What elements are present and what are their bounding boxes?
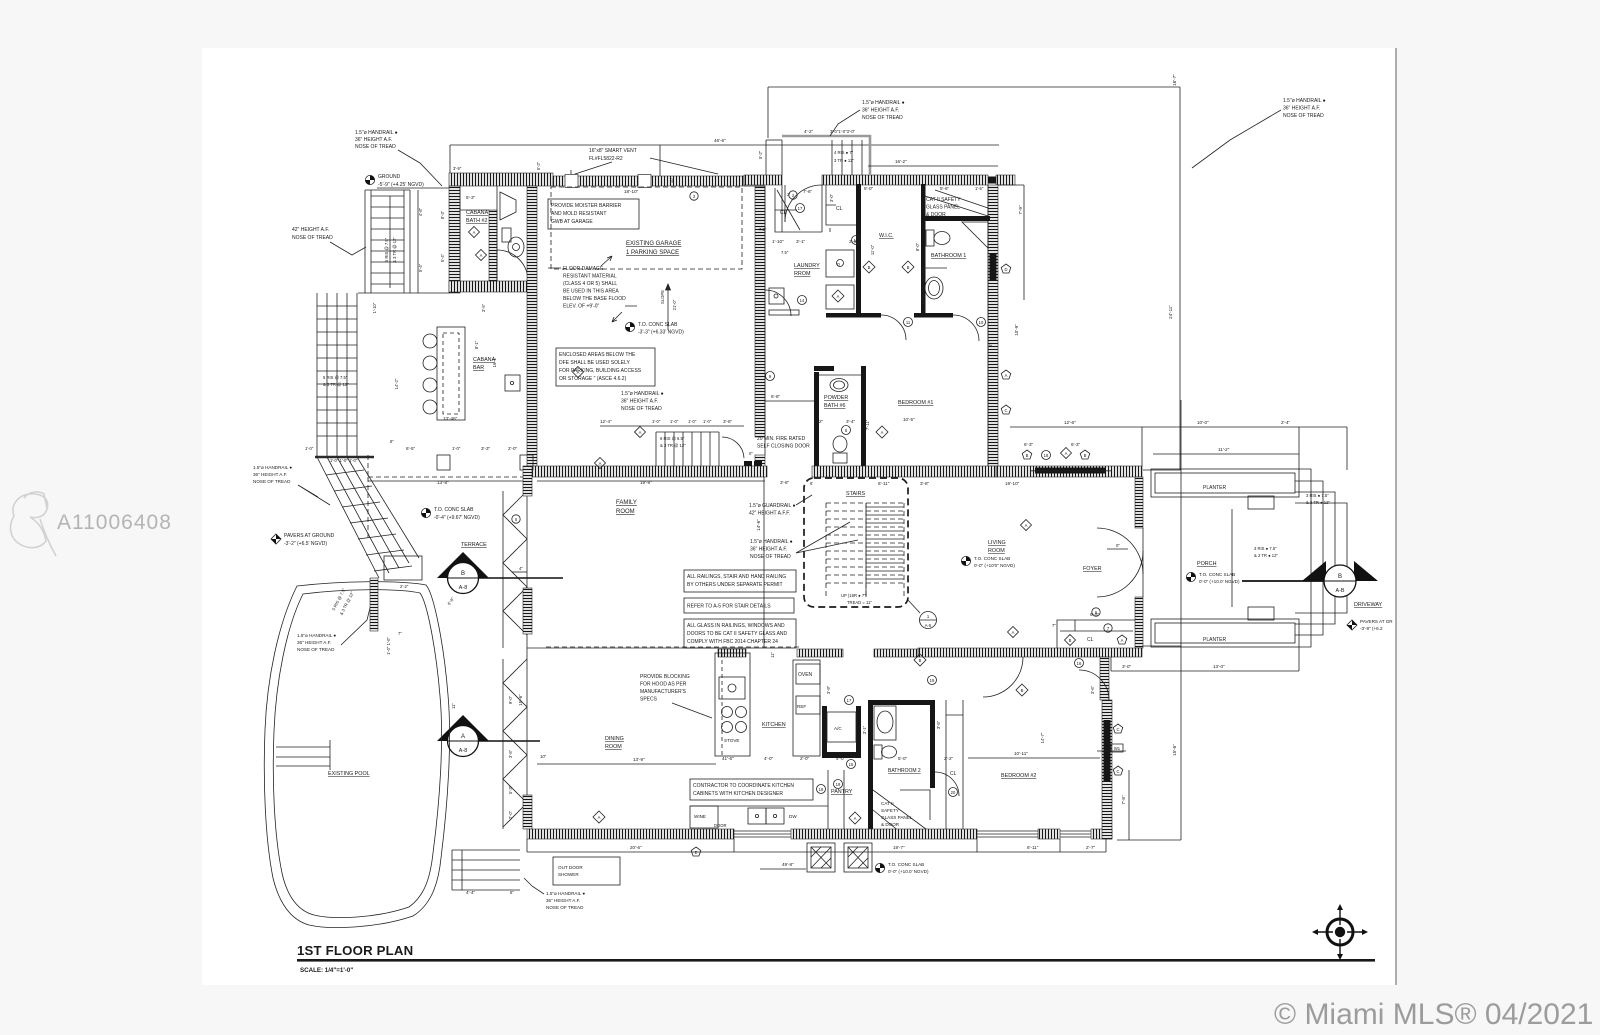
moisture barrier note box xyxy=(548,199,639,229)
svg-text:CL: CL xyxy=(950,771,957,777)
T.O. conc slab garage xyxy=(625,322,634,331)
svg-text:DOORS TO BE CAT II SAFETY GLAS: DOORS TO BE CAT II SAFETY GLASS AND xyxy=(687,631,788,637)
foyer bottom wall xyxy=(918,648,1142,657)
svg-text:2'-7": 2'-7" xyxy=(1086,845,1096,850)
svg-text:FAMILY: FAMILY xyxy=(616,500,637,506)
svg-text:1'-0": 1'-0" xyxy=(703,419,712,424)
svg-text:3'-5": 3'-5" xyxy=(936,720,941,729)
deck edge line left of cabana xyxy=(358,292,449,294)
svg-text:7'-8": 7'-8" xyxy=(1121,795,1126,805)
svg-text:0": 0" xyxy=(749,451,753,456)
svg-text:DW: DW xyxy=(789,814,797,819)
svg-text:5 RIS @ 7.5": 5 RIS @ 7.5" xyxy=(323,375,348,380)
svg-text:3'-4": 3'-4" xyxy=(846,419,856,424)
svg-text:36" HEIGHT A.F.: 36" HEIGHT A.F. xyxy=(862,108,899,114)
svg-text:ELEV. OF +9'-0": ELEV. OF +9'-0" xyxy=(563,304,600,310)
svg-text:D: D xyxy=(837,262,840,267)
svg-text:REFER TO A-5 FOR STAIR DETAILS: REFER TO A-5 FOR STAIR DETAILS xyxy=(687,604,771,610)
svg-text:C: C xyxy=(1004,408,1007,413)
svg-text:16'-2": 16'-2" xyxy=(895,159,907,164)
garage interior stair (6 RIS) xyxy=(656,432,719,466)
svg-text:BE USED IN THIS AREA: BE USED IN THIS AREA xyxy=(563,289,619,295)
svg-text:11": 11" xyxy=(770,652,775,658)
svg-text:T.O. CONC SLAB: T.O. CONC SLAB xyxy=(1199,572,1235,577)
stairs dashed enclosure xyxy=(804,478,908,607)
svg-text:14'-7": 14'-7" xyxy=(1040,732,1045,743)
svg-text:EXISTING GARAGE: EXISTING GARAGE xyxy=(626,241,681,247)
svg-text:3 TR ● 12": 3 TR ● 12" xyxy=(834,158,855,163)
svg-text:2'-4": 2'-4" xyxy=(1281,420,1291,425)
svg-text:36" HEIGHT A.F.: 36" HEIGHT A.F. xyxy=(297,640,331,645)
svg-text:C: C xyxy=(1116,727,1119,732)
svg-text:B: B xyxy=(919,658,922,663)
svg-text:8'-0": 8'-0" xyxy=(915,242,920,251)
svg-text:REF: REF xyxy=(797,704,806,709)
svg-text:46'-6": 46'-6" xyxy=(714,138,726,143)
svg-text:SPECS: SPECS xyxy=(640,697,658,703)
bar sink box xyxy=(505,375,520,391)
svg-text:3'-9": 3'-9" xyxy=(826,685,831,694)
svg-text:-5'-9" (+4.25' NGVD): -5'-9" (+4.25' NGVD) xyxy=(378,182,424,188)
svg-text:1.5"ø HANDRAIL ●: 1.5"ø HANDRAIL ● xyxy=(546,891,585,896)
svg-text:B: B xyxy=(1084,453,1087,458)
svg-text:12: 12 xyxy=(854,238,859,243)
right wing top wall xyxy=(744,175,782,185)
svg-text:BELOW THE BASE FLOOD: BELOW THE BASE FLOOD xyxy=(563,296,626,302)
svg-text:PLANTER: PLANTER xyxy=(1203,637,1226,643)
svg-text:7": 7" xyxy=(1052,623,1056,628)
svg-text:6'-3": 6'-3" xyxy=(1024,442,1034,447)
stairs treads xyxy=(826,503,904,597)
east wall bed2 xyxy=(1102,700,1112,839)
svg-text:FL#FL5822-R2: FL#FL5822-R2 xyxy=(589,156,623,162)
svg-text:ALL GLASS IN RAILINGS, WINDOWS: ALL GLASS IN RAILINGS, WINDOWS AND xyxy=(687,623,785,629)
svg-text:7.5": 7.5" xyxy=(781,250,789,255)
north window sills of kitchen zone xyxy=(718,649,746,657)
svg-text:7.5": 7.5" xyxy=(759,227,767,232)
svg-text:11'-2": 11'-2" xyxy=(1218,447,1230,452)
svg-text:2'-0": 2'-0" xyxy=(508,810,513,819)
svg-text:A: A xyxy=(461,734,465,740)
svg-text:10": 10" xyxy=(540,754,547,759)
svg-text:5'-3": 5'-3" xyxy=(466,195,476,200)
svg-text:6'-5": 6'-5" xyxy=(406,446,416,451)
svg-text:5'-6": 5'-6" xyxy=(940,186,950,191)
deck columns xyxy=(437,455,450,470)
svg-text:& 3 TR @ 12": & 3 TR @ 12" xyxy=(392,237,397,263)
svg-text:15'-6": 15'-6" xyxy=(1172,744,1177,756)
svg-text:STAIRS: STAIRS xyxy=(846,491,865,497)
slab marker bottom xyxy=(875,863,884,872)
base cabinets south xyxy=(690,770,844,829)
svg-text:17: 17 xyxy=(798,206,803,211)
svg-text:FOR HOOD AS PER: FOR HOOD AS PER xyxy=(640,682,687,688)
svg-text:FLOOR DAMAGE: FLOOR DAMAGE xyxy=(563,266,604,272)
dining west glazing zigzag xyxy=(503,648,527,829)
svg-text:5'-4": 5'-4" xyxy=(440,253,445,262)
svg-text:A: A xyxy=(1012,630,1015,635)
svg-text:12'-6": 12'-6" xyxy=(1064,420,1076,425)
notes boxes right of family room xyxy=(684,570,796,592)
svg-text:1ST FLOOR PLAN: 1ST FLOOR PLAN xyxy=(297,943,413,958)
svg-text:16"x8" SMART VENT: 16"x8" SMART VENT xyxy=(589,148,637,154)
smart vents in wall xyxy=(565,175,578,188)
svg-text:5'-3": 5'-3" xyxy=(508,785,513,794)
svg-text:DOOR: DOOR xyxy=(714,823,727,828)
svg-text:BATH #2: BATH #2 xyxy=(466,218,487,224)
svg-text:1'-0": 1'-0" xyxy=(670,419,679,424)
cabana bar table xyxy=(423,327,465,420)
svg-text:1'-5": 1'-5" xyxy=(975,186,984,191)
svg-text:& 2 TR ● 12": & 2 TR ● 12" xyxy=(1254,553,1278,558)
svg-text:LIVING: LIVING xyxy=(988,540,1006,546)
svg-text:7'-6": 7'-6" xyxy=(803,189,813,194)
equipment pads xyxy=(807,843,872,872)
window keynotes east xyxy=(1113,724,1123,733)
42" height note xyxy=(292,227,366,255)
svg-text:2'-2": 2'-2" xyxy=(944,756,954,761)
svg-text:CAT II SAFETY: CAT II SAFETY xyxy=(926,197,961,203)
powder bath toilet xyxy=(833,436,847,463)
svg-text:7": 7" xyxy=(398,631,402,636)
svg-text:A: A xyxy=(1025,523,1028,528)
svg-text:A: A xyxy=(837,294,840,299)
svg-text:NOSE OF TREAD: NOSE OF TREAD xyxy=(253,479,291,484)
svg-text:KITCHEN: KITCHEN xyxy=(762,722,786,728)
svg-text:SLOPE: SLOPE xyxy=(660,290,665,304)
svg-text:19: 19 xyxy=(930,678,935,683)
section marker B right xyxy=(1242,561,1378,597)
kitchen island xyxy=(715,653,750,756)
svg-text:A: A xyxy=(577,370,580,375)
powder bath walls xyxy=(814,372,819,470)
svg-text:DRIVEWAY: DRIVEWAY xyxy=(1354,602,1383,608)
dashed soffit line xyxy=(546,646,800,648)
svg-text:© Miami MLS® 04/2021: © Miami MLS® 04/2021 xyxy=(1274,998,1593,1031)
cabana bath left wall xyxy=(449,186,460,293)
bottom dim line xyxy=(527,851,1106,853)
south windows xyxy=(734,831,1091,837)
svg-text:5 RIS @ 7.5": 5 RIS @ 7.5" xyxy=(384,237,389,262)
garage parking dashed area xyxy=(551,187,742,269)
svg-text:B: B xyxy=(1021,688,1024,693)
svg-text:A/C: A/C xyxy=(834,726,842,731)
svg-text:3'-6": 3'-6" xyxy=(1090,685,1095,694)
svg-text:4'-8": 4'-8" xyxy=(418,207,423,216)
svg-text:B: B xyxy=(868,265,871,270)
svg-text:DINING: DINING xyxy=(605,736,624,742)
svg-text:PANTRY: PANTRY xyxy=(831,789,853,795)
svg-text:E: E xyxy=(695,850,698,855)
svg-text:4'-2": 4'-2" xyxy=(804,129,814,134)
svg-text:0'-0" (+10.0' NGVD): 0'-0" (+10.0' NGVD) xyxy=(1199,579,1240,584)
garage/family bottom wall xyxy=(527,466,767,477)
title underline xyxy=(297,959,1375,962)
svg-text:3'-5": 3'-5" xyxy=(508,749,513,758)
svg-text:NOSE OF TREAD: NOSE OF TREAD xyxy=(862,115,903,121)
svg-text:1.5"ø HANDRAIL ●: 1.5"ø HANDRAIL ● xyxy=(253,465,292,470)
svg-text:3'-9": 3'-9" xyxy=(453,166,462,171)
svg-text:BATH #6: BATH #6 xyxy=(824,403,845,409)
svg-text:DFE SHALL BE USED SOLELY: DFE SHALL BE USED SOLELY xyxy=(559,360,631,366)
svg-text:NOSE OF TREAD: NOSE OF TREAD xyxy=(750,554,791,560)
svg-text:C: C xyxy=(1116,769,1119,774)
svg-text:8": 8" xyxy=(390,439,394,444)
section marker A left xyxy=(437,715,540,757)
handrail bar xyxy=(315,456,374,458)
svg-text:PLANTER: PLANTER xyxy=(1203,485,1226,491)
svg-text:OVEN: OVEN xyxy=(798,672,813,678)
bedroom1 south wall with sliding door xyxy=(996,466,1142,477)
svg-text:3'-8": 3'-8" xyxy=(780,480,790,485)
vertical dim 15'-6" right xyxy=(1180,671,1182,840)
right wing east wall xyxy=(988,185,998,466)
second CL closet xyxy=(826,185,856,232)
garage top wall xyxy=(553,176,744,186)
stairs solid tread overlay xyxy=(866,503,904,597)
svg-text:9'-0": 9'-0" xyxy=(508,695,513,704)
svg-text:CABANA: CABANA xyxy=(466,210,489,216)
svg-text:& DOOR: & DOOR xyxy=(881,822,900,827)
svg-text:A: A xyxy=(480,253,483,258)
svg-text:CAT II: CAT II xyxy=(881,801,894,806)
svg-text:-3'-3" (+6.33' NGVD): -3'-3" (+6.33' NGVD) xyxy=(638,330,684,336)
oven/ref column xyxy=(793,660,820,756)
svg-text:NOSE OF TREAD: NOSE OF TREAD xyxy=(297,647,335,652)
svg-text:3'-0": 3'-0" xyxy=(1122,664,1132,669)
svg-text:OR STORAGE " (ASCE 4.6.2): OR STORAGE " (ASCE 4.6.2) xyxy=(559,376,627,382)
pavers note right xyxy=(1347,620,1357,630)
svg-text:3 RIS ● 7.5": 3 RIS ● 7.5" xyxy=(1306,493,1329,498)
svg-text:5": 5" xyxy=(988,343,993,347)
right wing inner face lines xyxy=(744,185,988,466)
white sheet xyxy=(202,48,1396,985)
svg-text:14'-2": 14'-2" xyxy=(394,378,399,389)
keynote row above sliding door xyxy=(1022,450,1032,459)
entry steps nested xyxy=(1232,469,1347,647)
svg-text:15: 15 xyxy=(849,762,854,767)
svg-text:42" HEIGHT A.F.F.: 42" HEIGHT A.F.F. xyxy=(749,511,790,517)
entry stoop handrail xyxy=(782,136,870,175)
pool-side handrail post xyxy=(370,578,378,631)
dim 46'-6" top xyxy=(450,144,999,146)
foyer/porch wall hatches xyxy=(1135,477,1143,528)
svg-text:36" HEIGHT A.F.: 36" HEIGHT A.F. xyxy=(546,898,580,903)
svg-text:A: A xyxy=(473,230,476,235)
cabana bath fixtures: shower head + toilet + sink xyxy=(500,192,524,257)
svg-text:-0'-4" (+9.67' NGVD): -0'-4" (+9.67' NGVD) xyxy=(434,515,480,521)
svg-text:UP (18R ● 7": UP (18R ● 7" xyxy=(841,593,866,598)
svg-text:A: A xyxy=(599,461,602,466)
svg-text:2'-0": 2'-0" xyxy=(800,756,810,761)
svg-text:1'-0": 1'-0" xyxy=(452,446,461,451)
svg-text:19'-7": 19'-7" xyxy=(893,845,905,850)
svg-text:-3'-9" (+6.2: -3'-9" (+6.2 xyxy=(1360,626,1383,631)
svg-text:10'-9": 10'-9" xyxy=(1014,324,1019,336)
east wall window dark xyxy=(990,253,997,281)
svg-text:1.5"ø HANDRAIL ●: 1.5"ø HANDRAIL ● xyxy=(297,633,336,638)
svg-text:1.5"ø GUARDRAIL ●: 1.5"ø GUARDRAIL ● xyxy=(749,503,796,509)
svg-text:4": 4" xyxy=(519,566,523,571)
svg-text:GLASS PANEL: GLASS PANEL xyxy=(881,815,913,820)
section marker B left xyxy=(437,552,563,594)
MLS listing watermark icon xyxy=(11,492,56,556)
svg-text:6'-11": 6'-11" xyxy=(1027,845,1039,850)
svg-text:6 RIS @ 6.5": 6 RIS @ 6.5" xyxy=(660,436,685,441)
svg-text:2'-0": 2'-0" xyxy=(508,446,518,451)
svg-text:18: 18 xyxy=(819,787,824,792)
svg-text:STOVE: STOVE xyxy=(724,738,740,743)
svg-text:PAVERS AT GROUND: PAVERS AT GROUND xyxy=(284,533,335,539)
svg-text:& DOOR: & DOOR xyxy=(926,212,946,218)
cabana bath inner lines xyxy=(460,186,497,281)
foyer closet xyxy=(1057,620,1136,648)
svg-text:3'-0": 3'-0" xyxy=(829,193,834,202)
svg-text:EXISTING POOL: EXISTING POOL xyxy=(328,771,370,777)
svg-text:A: A xyxy=(1121,638,1124,643)
svg-text:CL: CL xyxy=(780,210,787,216)
svg-text:B: B xyxy=(907,265,910,270)
out door shower xyxy=(553,857,620,885)
svg-text:T.O. CONC SLAB: T.O. CONC SLAB xyxy=(434,507,474,513)
svg-text:ALL RAILINGS, STAIR AND HAND R: ALL RAILINGS, STAIR AND HAND RAILING xyxy=(687,574,786,580)
svg-text:1 PARKING SPACE: 1 PARKING SPACE xyxy=(626,250,679,256)
svg-text:20: 20 xyxy=(951,790,956,795)
svg-text:GLASS PANEL: GLASS PANEL xyxy=(926,205,960,211)
svg-text:PROVIDE MOISTER BARRIER: PROVIDE MOISTER BARRIER xyxy=(551,203,622,209)
svg-text:0'-0" (+10'0" NGVD): 0'-0" (+10'0" NGVD) xyxy=(974,563,1015,568)
ground elevation marker xyxy=(365,174,449,188)
bath2 shower xyxy=(873,790,930,832)
svg-text:8": 8" xyxy=(510,890,514,895)
diagonal stair flight xyxy=(317,457,422,580)
slope arrow + dims in garage xyxy=(666,284,671,330)
svg-text:SHOWER: SHOWER xyxy=(558,872,579,877)
svg-text:& 2 TR ● 12": & 2 TR ● 12" xyxy=(1306,500,1330,505)
svg-text:BATHROOM 1: BATHROOM 1 xyxy=(931,253,966,259)
sheet right edge line xyxy=(1395,48,1397,985)
bath1 shower glass + seat xyxy=(925,190,988,248)
svg-text:SCALE: 1/4"=1'-0": SCALE: 1/4"=1'-0" xyxy=(300,967,353,974)
keynote symbols laundry xyxy=(798,296,807,305)
svg-text:4 RIS ● 7": 4 RIS ● 7" xyxy=(834,150,854,155)
svg-text:POWDER: POWDER xyxy=(824,395,848,401)
svg-text:A-8: A-8 xyxy=(459,585,467,591)
svg-text:T.O. CONC SLAB: T.O. CONC SLAB xyxy=(638,322,678,328)
svg-text:& 3 TR @ 12": & 3 TR @ 12" xyxy=(323,382,349,387)
bath1 shower dark walls xyxy=(925,216,990,221)
svg-text:11": 11" xyxy=(451,703,456,709)
svg-text:B: B xyxy=(461,571,465,577)
svg-text:19'-10": 19'-10" xyxy=(1005,481,1020,486)
svg-text:36" HEIGHT A.F.: 36" HEIGHT A.F. xyxy=(750,547,787,553)
svg-text:CABINETS WITH KITCHEN DESIGNER: CABINETS WITH KITCHEN DESIGNER xyxy=(693,791,783,797)
svg-text:8'-3": 8'-3" xyxy=(440,210,445,219)
A/C closet dark walls xyxy=(822,706,827,758)
svg-text:13'-46": 13'-46" xyxy=(443,416,458,421)
door arcs bottom wing xyxy=(983,657,1023,697)
svg-text:A-5: A-5 xyxy=(925,623,932,628)
svg-text:RROM: RROM xyxy=(794,271,811,277)
south wall hatched xyxy=(527,829,734,839)
20 min fire door note + arc xyxy=(722,437,744,458)
svg-text:MANUFACTURER'S: MANUFACTURER'S xyxy=(640,689,687,695)
svg-text:GWB AT GARAGE: GWB AT GARAGE xyxy=(551,219,593,225)
entry door arcs xyxy=(1097,528,1143,574)
svg-text:10'-5": 10'-5" xyxy=(903,417,915,422)
svg-text:3'-3": 3'-3" xyxy=(481,446,491,451)
svg-text:ROOM: ROOM xyxy=(616,509,635,515)
svg-text:& 3 TR @ 12": & 3 TR @ 12" xyxy=(660,443,686,448)
svg-text:1'-10": 1'-10" xyxy=(372,302,377,313)
svg-text:(CLASS 4 OR 5) SHALL: (CLASS 4 OR 5) SHALL xyxy=(563,281,617,287)
svg-text:1'-0" 1'-0" 1'-0": 1'-0" 1'-0" 1'-0" xyxy=(330,458,358,463)
svg-text:B: B xyxy=(1026,453,1029,458)
svg-text:19: 19 xyxy=(836,782,841,787)
svg-text:FOYER: FOYER xyxy=(1083,566,1102,572)
svg-text:6': 6' xyxy=(810,481,813,486)
svg-text:24'-11": 24'-11" xyxy=(1168,305,1173,319)
svg-text:1.5"ø HANDRAIL ●: 1.5"ø HANDRAIL ● xyxy=(621,391,664,397)
svg-text:AND MOLD RESISTANT: AND MOLD RESISTANT xyxy=(551,211,606,217)
svg-text:RESISTANT MATERIAL: RESISTANT MATERIAL xyxy=(563,274,617,280)
svg-text:6'-8": 6'-8" xyxy=(771,394,781,399)
cabana bath top wall xyxy=(449,173,553,186)
svg-text:PAVERS AT GR: PAVERS AT GR xyxy=(1360,619,1393,624)
entry door arc xyxy=(785,185,822,222)
WIC/bath1 dark partition xyxy=(921,184,926,315)
porch slab edge xyxy=(1180,400,1182,671)
vertical dim 7'-8" xyxy=(1128,770,1130,840)
svg-text:5'-2": 5'-2" xyxy=(758,150,763,159)
keynote diamond A family xyxy=(595,458,606,469)
svg-text:5'-4": 5'-4" xyxy=(418,263,423,272)
bath2 toilet xyxy=(874,745,897,759)
handrail note top-left xyxy=(355,130,442,186)
svg-text:3'-5": 3'-5" xyxy=(481,303,486,312)
svg-text:41'-6": 41'-6" xyxy=(722,756,734,761)
west wall window sill hatches xyxy=(523,466,532,496)
svg-text:4'-4": 4'-4" xyxy=(466,890,476,895)
svg-text:15'-6": 15'-6" xyxy=(518,694,523,706)
wing wall below foyer xyxy=(1100,657,1109,700)
svg-text:BEDROOM #1: BEDROOM #1 xyxy=(898,400,933,406)
keynote diamond A at cabana wall xyxy=(469,227,480,238)
svg-text:A: A xyxy=(1065,451,1068,456)
contractor note box xyxy=(690,779,813,800)
svg-text:ROOM: ROOM xyxy=(605,744,622,750)
svg-text:10'-0": 10'-0" xyxy=(1197,420,1209,425)
svg-text:NOSE OF TREAD: NOSE OF TREAD xyxy=(292,235,333,241)
cabana bath inner partition xyxy=(489,210,497,281)
sliding door dark band xyxy=(1035,468,1106,474)
powder bath sink xyxy=(819,375,861,392)
svg-text:18'-10": 18'-10" xyxy=(624,189,639,194)
CL closet bed2 xyxy=(946,700,963,829)
svg-text:CONTRACTOR TO COORDINATE KITCH: CONTRACTOR TO COORDINATE KITCHEN xyxy=(693,783,794,789)
dim 16'-2" xyxy=(868,165,998,167)
top outer dim line 16'-7" xyxy=(768,86,1180,88)
svg-text:14'-6": 14'-6" xyxy=(756,519,761,531)
left deck steps bottom xyxy=(452,850,520,890)
bath1 toilet xyxy=(926,230,950,246)
upper stair flight treads xyxy=(365,190,418,293)
svg-text:BY OTHERS UNDER SEPARATE PERMI: BY OTHERS UNDER SEPARATE PERMIT xyxy=(687,582,783,588)
svg-text:20'-6": 20'-6" xyxy=(630,845,642,850)
svg-text:NOSE OF TREAD: NOSE OF TREAD xyxy=(621,406,662,412)
svg-text:T.O. CONC SLAB: T.O. CONC SLAB xyxy=(888,862,924,867)
svg-text:3'-1": 3'-1" xyxy=(796,239,806,244)
